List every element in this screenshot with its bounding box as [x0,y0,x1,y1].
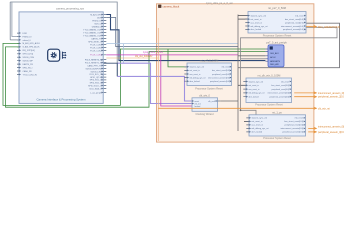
processor system reset rst_0 (mid right) [243,75,294,107]
svg-text:mb_debug_sys_rst: mb_debug_sys_rst [251,25,268,28]
svg-text:zynq_FCLK_CLK3: zynq_FCLK_CLK3 [143,51,163,54]
wire orange port feed [106,57,158,59]
svg-text:SDIO0_WP: SDIO0_WP [23,61,34,63]
wire gray right loop A [238,23,340,67]
svg-text:interconnect_aresetn_2[0:0]: interconnect_aresetn_2[0:0] [318,92,344,95]
svg-text:UART0_TX: UART0_TX [91,37,102,40]
svg-text:bus_struct_reset[0:0]: bus_struct_reset[0:0] [284,120,303,123]
svg-text:Processor System Reset: Processor System Reset [263,137,291,140]
svg-text:Processor System Reset: Processor System Reset [195,87,223,90]
svg-text:ext_reset_in: ext_reset_in [252,120,263,123]
svg-text:M00_AXI: M00_AXI [270,63,279,66]
svg-text:interconnect_aresetn[0:0]: interconnect_aresetn[0:0] [268,92,290,95]
svg-text:SPI0_SCLK_O: SPI0_SCLK_O [88,85,102,87]
svg-text:M_AXI_GP0_ACLK: M_AXI_GP0_ACLK [23,42,41,45]
wire stubs bottom reset [244,120,249,122]
svg-text:mb_reset: mb_reset [281,80,289,83]
svg-text:FCLK_CLK2: FCLK_CLK2 [90,50,102,52]
wire slate ext_reset [106,18,238,47]
svg-text:dcm_locked: dcm_locked [249,97,259,99]
wire orange port periph0 [308,131,316,133]
wire navy bus M_AXI_GP0 [106,15,265,61]
wire gray to hierarchy aresetn [238,55,265,57]
svg-text:interconnect_aresetn_0[0:0]: interconnect_aresetn_0[0:0] [318,126,344,129]
svg-text:rst_ps7_0_50M: rst_ps7_0_50M [268,6,286,10]
svg-text:peripheral_reset[0:0]: peripheral_reset[0:0] [285,21,304,24]
wire wizard clk_out [220,100,238,102]
processor system reset rst_ps7_0 (top) [245,6,308,37]
wire gray reset trunk [237,15,239,132]
svg-text:Processor System Reset: Processor System Reset [263,33,292,37]
svg-text:M01_ARESETN[0:0]: M01_ARESETN[0:0] [318,26,340,29]
svg-text:peripheral_aresetn_2[0:0]: peripheral_aresetn_2[0:0] [318,96,344,99]
svg-text:peripheral_aresetn[0:0]: peripheral_aresetn[0:0] [283,28,304,31]
svg-text:FCLK_CLK1: FCLK_CLK1 [90,47,102,49]
svg-text:peripheral_aresetn[0:0]: peripheral_aresetn[0:0] [270,96,290,99]
svg-text:Clocking Wizard: Clocking Wizard [195,113,214,116]
wire orange port M01 [306,26,317,28]
svg-text:locked: locked [195,106,201,108]
wire green net FCLK_CLK1 [6,47,266,107]
processor system reset fclk1 (upper middle) [184,60,234,91]
svg-text:mb_reset: mb_reset [222,66,230,69]
svg-text:FCLK_RESET0_N: FCLK_RESET0_N [85,59,102,61]
wire orange port periph3 [294,96,316,98]
wire green branch to rst fclk1 [168,49,187,67]
svg-text:mb_reset: mb_reset [295,117,304,120]
wire orange port interconnect0 [308,127,316,129]
svg-text:FCLK_CLK3: FCLK_CLK3 [90,55,102,57]
svg-text:slowest_sync_clk: slowest_sync_clk [249,80,264,83]
wire gray FIXED_IO [12,3,19,37]
clocking wizard clk_wiz_0 [192,94,238,116]
svg-text:TTC0_WAVE1_OUT: TTC0_WAVE1_OUT [83,31,102,34]
PS7 icon [48,49,67,61]
svg-text:clk_wiz_rst: clk_wiz_rst [318,107,330,110]
svg-text:ARESETN: ARESETN [270,60,280,63]
wire orange vertical [157,28,159,141]
svg-text:bus_struct_reset[0:0]: bus_struct_reset[0:0] [285,18,304,21]
svg-text:FIXED_IO: FIXED_IO [23,36,33,38]
svg-text:M_AXI_GP0: M_AXI_GP0 [90,13,102,16]
svg-text:S00_AXI: S00_AXI [270,52,279,55]
svg-text:mb_debug_sys_rst: mb_debug_sys_rst [190,76,206,79]
wire gray right loop B [241,27,338,116]
svg-text:ext_reset_in: ext_reset_in [251,18,262,21]
svg-text:FIXED_IO: FIXED_IO [92,20,102,22]
svg-text:rst_ps7_0_100M: rst_ps7_0_100M [200,60,219,63]
wire magenta FCLK_CLK3 [106,54,238,56]
svg-text:s_axi_periph: s_axi_periph [90,92,101,94]
svg-text:SDIO0_BUSPOW: SDIO0_BUSPOW [85,68,101,70]
svg-text:GPIO_I[7:0]: GPIO_I[7:0] [23,54,34,56]
svg-text:FCLK_CLK0: FCLK_CLK0 [90,44,102,46]
svg-text:SPI0_SS2_O: SPI0_SS2_O [90,82,102,84]
svg-text:usbind_0: usbind_0 [23,40,32,42]
svg-text:TTC0_WAVE0_OUT: TTC0_WAVE0_OUT [83,28,102,31]
svg-text:SPI0_SS1_O: SPI0_SS1_O [90,80,102,82]
svg-text:CAN0_RX: CAN0_RX [23,70,33,73]
svg-text:slowest_sync_clk: slowest_sync_clk [190,66,205,69]
svg-text:camera_block: camera_block [163,4,180,8]
svg-text:aux_reset_in: aux_reset_in [251,21,262,24]
svg-text:peripheral_reset[0:0]: peripheral_reset[0:0] [212,73,230,76]
svg-text:clk_out1: clk_out1 [208,100,216,103]
svg-text:rst_clk_wiz_0_100M: rst_clk_wiz_0_100M [258,75,281,78]
port arrows [314,26,317,134]
svg-text:bus_struct_reset[0:0]: bus_struct_reset[0:0] [212,69,230,72]
svg-text:aux_reset_in: aux_reset_in [190,73,201,76]
svg-text:UART0_RX: UART0_RX [23,63,34,66]
svg-text:camera_processing_sys: camera_processing_sys [56,7,85,11]
processor system reset rst_1 (bottom) [246,111,308,140]
svg-text:aux_reset_in: aux_reset_in [249,88,260,91]
svg-text:ps7_0_axi_periph: ps7_0_axi_periph [266,40,287,44]
svg-text:interconnect_aresetn[0:0]: interconnect_aresetn[0:0] [280,127,303,130]
svg-text:peripheral_reset[0:0]: peripheral_reset[0:0] [272,88,290,91]
svg-text:SDIO_0: SDIO_0 [94,23,102,25]
wire navy FCLK_RESET0 [104,63,118,76]
svg-text:IRQ_F2P[0:0]: IRQ_F2P[0:0] [23,50,36,52]
svg-text:TTC0_WAVE2_OUT: TTC0_WAVE2_OUT [83,34,102,37]
svg-text:peripheral_aresetn[0:0]: peripheral_aresetn[0:0] [210,80,230,83]
wire gray usbind [10,39,19,41]
hierarchy container camera_block [157,4,314,142]
wire stub top reset ext_reset_in [238,15,248,17]
svg-text:ext_reset_in: ext_reset_in [249,84,259,87]
svg-text:S_AXI_HP0_ACLK: S_AXI_HP0_ACLK [23,46,41,49]
svg-text:bus_struct_reset[0:0]: bus_struct_reset[0:0] [271,84,289,87]
wire gray top from DDR [10,2,117,76]
svg-text:ext_reset_in: ext_reset_in [190,69,200,72]
svg-text:Processor System Reset: Processor System Reset [255,104,283,107]
svg-text:mb_debug_sys_rst: mb_debug_sys_rst [249,92,265,95]
svg-text:Camera Interface & Processing: Camera Interface & Processing System [37,97,87,101]
processing system block PS7 [19,7,103,104]
svg-text:CAN0_PHY_TX: CAN0_PHY_TX [87,64,102,67]
wire orange port periph2 [294,92,316,94]
svg-text:dcm_locked: dcm_locked [252,132,263,134]
wire orange port periph1 [158,107,316,109]
svg-text:dcm_locked: dcm_locked [251,29,262,31]
svg-text:USBIND_0: USBIND_0 [92,26,103,28]
wire lavender reset bus [117,76,192,101]
PS7 right pin stubs [104,15,107,93]
svg-text:FCLK_RESET1_N: FCLK_RESET1_N [85,62,102,64]
svg-text:SPI0_SS_I: SPI0_SS_I [23,67,33,69]
collapsed hierarchy ps7_0_axi_periph [265,40,287,67]
svg-text:clk_wiz_0: clk_wiz_0 [199,94,210,97]
svg-text:slowest_sync_clk: slowest_sync_clk [251,14,266,17]
svg-text:dcm_locked: dcm_locked [190,81,200,83]
svg-text:peripheral_aresetn[0:0]: peripheral_aresetn[0:0] [282,131,303,134]
svg-text:mb_reset: mb_reset [295,14,304,17]
svg-text:interconnect_aresetn[0:0]: interconnect_aresetn[0:0] [208,76,230,79]
wire lavender clk bus [118,63,193,103]
svg-text:DDR: DDR [23,33,28,35]
svg-text:peripheral_reset[0:0]: peripheral_reset[0:0] [285,124,304,127]
wire green net FCLK_CLK0 [3,43,265,105]
svg-text:mb_debug_sys_rst: mb_debug_sys_rst [252,127,269,130]
svg-text:TTC0_CLK0_IN: TTC0_CLK0_IN [23,74,38,76]
svg-text:clk_out_300mhz: clk_out_300mhz [135,55,153,58]
svg-text:ACLK: ACLK [270,56,276,59]
svg-text:SPI0_MOSI_O: SPI0_MOSI_O [88,41,102,43]
svg-text:rst_1_ps: rst_1_ps [272,111,282,114]
svg-text:I2C0_SCL_O: I2C0_SCL_O [90,74,102,76]
svg-text:GPIO_O[7:0]: GPIO_O[7:0] [90,77,102,79]
PS7 right pins [83,13,102,94]
PS7 pin arrows [19,32,21,75]
svg-text:SDIO0_CDN: SDIO0_CDN [23,57,35,59]
PS7 left pins [23,33,41,76]
svg-text:zynq_ultra_ps_e_0_axi: zynq_ultra_ps_e_0_axi [206,1,233,5]
PS7 left pin stubs [17,33,19,74]
svg-text:I2C0_SDA_O: I2C0_SDA_O [89,87,102,90]
wire pale blue FCLK clk [106,43,238,45]
svg-text:interconnect_aresetn[0:0]: interconnect_aresetn[0:0] [281,25,304,28]
svg-text:DDR: DDR [97,17,102,19]
svg-text:peripheral_aresetn_0[0:0]: peripheral_aresetn_0[0:0] [318,131,344,134]
svg-text:slowest_sync_clk: slowest_sync_clk [252,117,267,120]
wire stubs mid reset [238,84,246,86]
svg-text:aux_reset_in: aux_reset_in [252,124,263,127]
